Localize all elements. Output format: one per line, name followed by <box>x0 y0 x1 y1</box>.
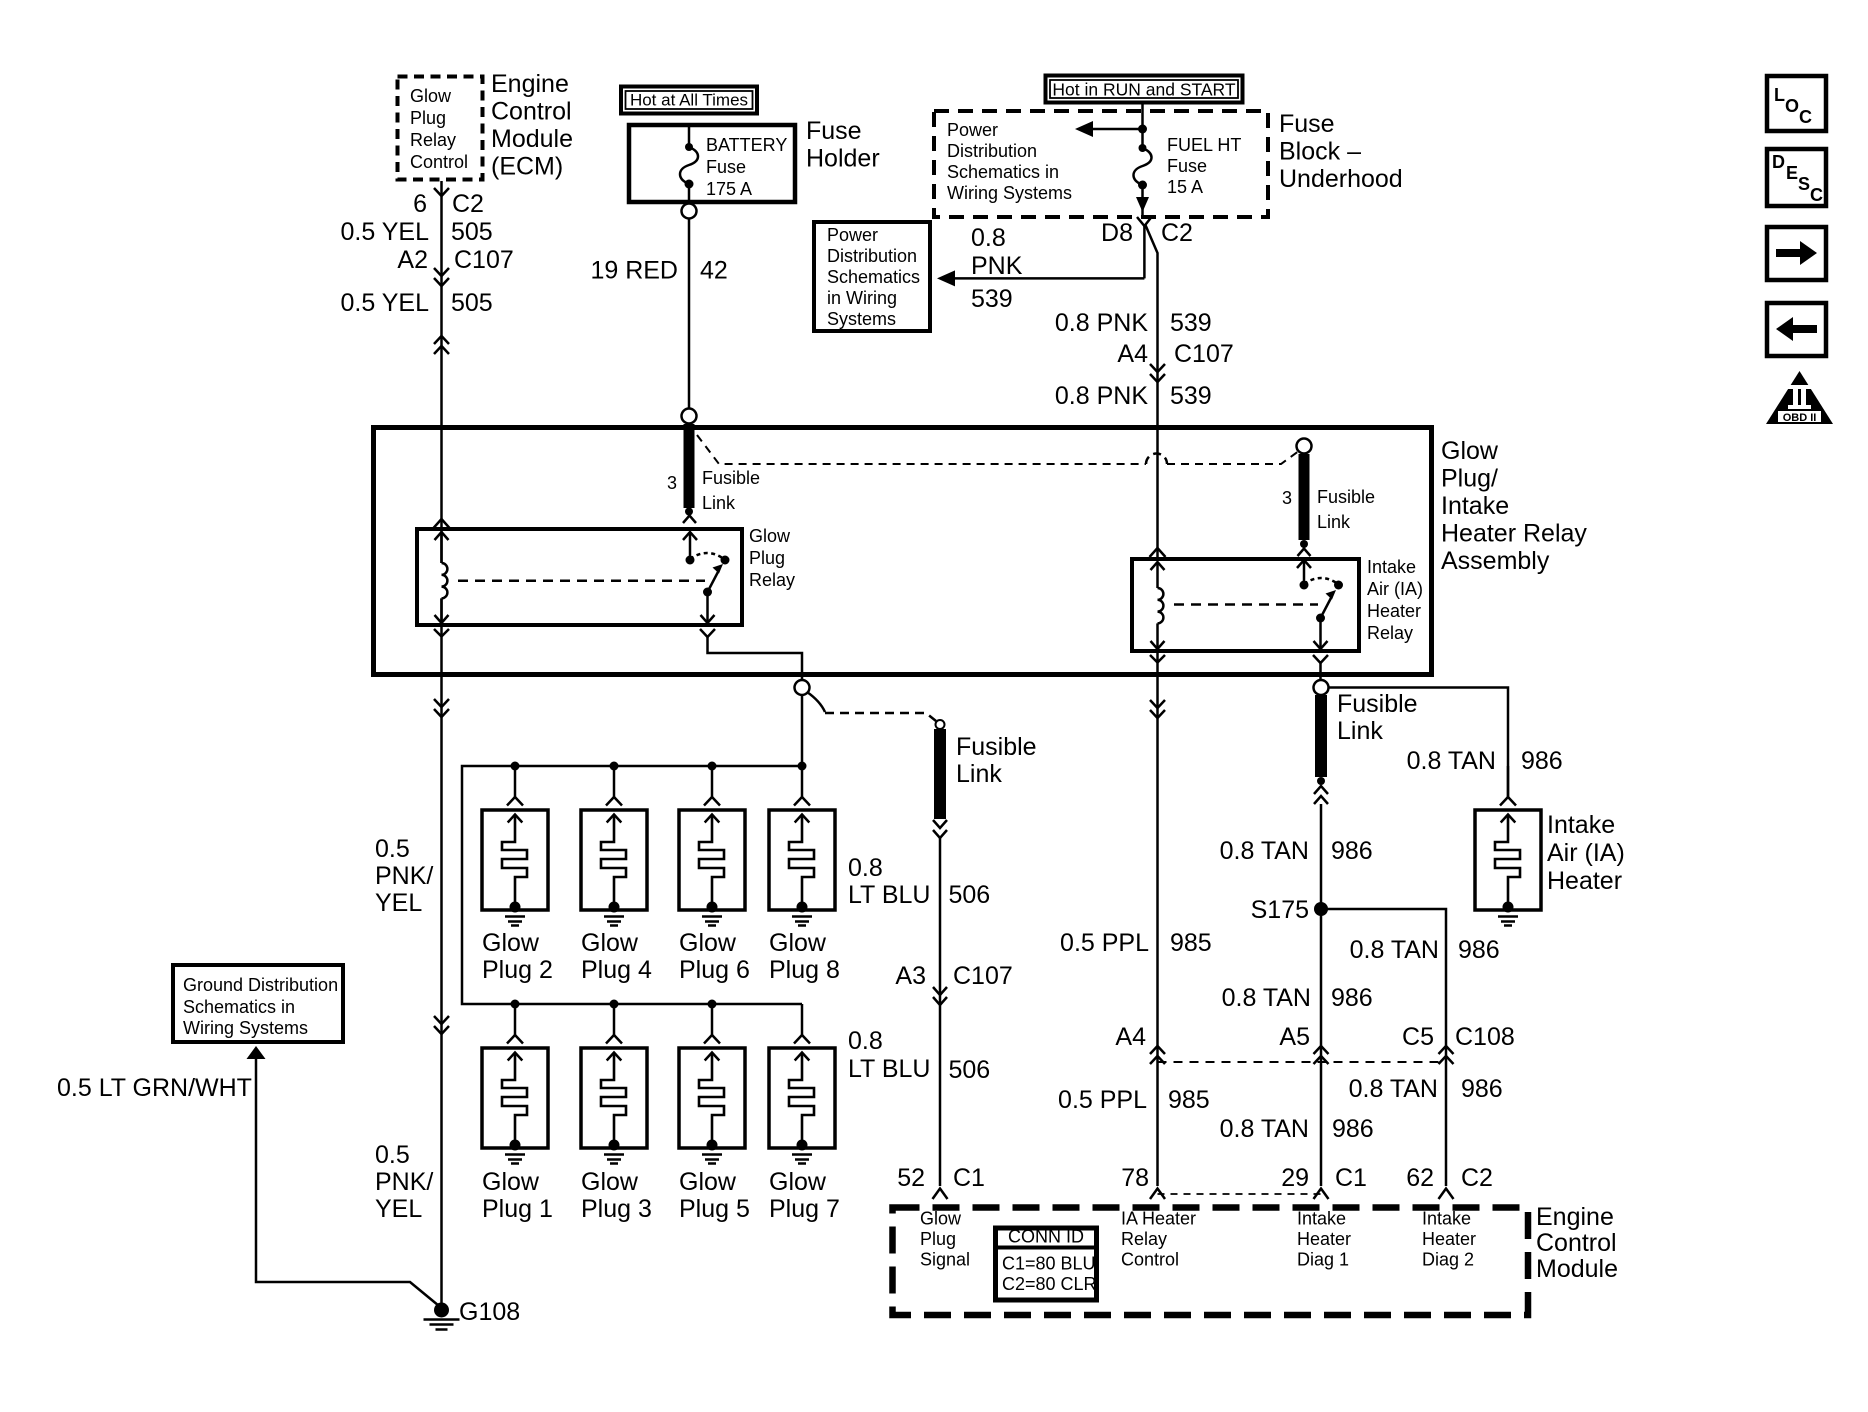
svg-text:Fusible: Fusible <box>1337 690 1418 718</box>
svg-text:Glow: Glow <box>482 929 540 957</box>
svg-text:986: 986 <box>1461 1075 1503 1103</box>
svg-text:Relay: Relay <box>749 570 795 590</box>
label: 0.5 PNK/ YEL (lower) <box>375 1141 433 1223</box>
svg-text:Control: Control <box>1121 1250 1179 1270</box>
svg-text:PNK: PNK <box>971 252 1023 280</box>
svg-text:C107: C107 <box>953 962 1013 990</box>
label: 0.8 TAN 986 (heater drop) <box>1407 747 1563 775</box>
svg-text:986: 986 <box>1331 837 1373 865</box>
label: Glow Plug/ Intake Heater Relay Assembly <box>1441 437 1587 575</box>
IA heater relay switch <box>1297 560 1343 649</box>
label box: Hot at All Times <box>621 87 757 114</box>
svg-text:Heater: Heater <box>1367 601 1421 621</box>
pin chevron 52 <box>933 1189 948 1200</box>
svg-text:986: 986 <box>1331 984 1373 1012</box>
svg-text:Glow: Glow <box>1441 437 1499 465</box>
wire break double chevron up on 505 wire <box>434 336 449 354</box>
label: 0.8 PNK 539 <box>1055 309 1212 337</box>
svg-text:(ECM): (ECM) <box>491 153 563 181</box>
svg-text:0.5 PPL: 0.5 PPL <box>1058 1086 1147 1114</box>
svg-text:C107: C107 <box>1174 340 1234 368</box>
svg-text:CONN ID: CONN ID <box>1008 1227 1084 1247</box>
chevron above IA relay on 539 wire <box>1150 548 1166 557</box>
connector C108 dashed line <box>1158 1061 1447 1063</box>
svg-text:Plug 7: Plug 7 <box>769 1195 840 1223</box>
wire into fuse <box>688 127 691 146</box>
svg-text:Plug 6: Plug 6 <box>679 956 750 984</box>
ground distribution schematics reference box <box>173 965 343 1042</box>
pin chevron 78 <box>1150 1189 1165 1200</box>
connector C108 chevrons C5 <box>1439 1046 1454 1064</box>
label: pin 6 / C2 <box>413 190 484 218</box>
svg-text:Fuse: Fuse <box>706 157 746 177</box>
svg-text:0.8 TAN: 0.8 TAN <box>1349 1075 1438 1103</box>
svg-text:Link: Link <box>1317 512 1351 532</box>
svg-text:986: 986 <box>1458 936 1500 964</box>
connector chevron below IA relay coil <box>1150 655 1165 663</box>
svg-text:Plug: Plug <box>749 548 785 568</box>
wire: 985 PPL from IA relay coil down to ECM pin 78 <box>1156 651 1159 1186</box>
svg-text:Link: Link <box>1337 717 1383 745</box>
dashed actuation line IA relay <box>1174 603 1318 606</box>
svg-text:0.8: 0.8 <box>848 1027 883 1055</box>
svg-text:IA Heater: IA Heater <box>1121 1209 1196 1229</box>
IA heater relay coil <box>1151 562 1165 649</box>
svg-text:Intake: Intake <box>1422 1209 1471 1229</box>
wire: 19 RED 42 <box>688 219 691 408</box>
svg-text:Glow: Glow <box>769 1168 827 1196</box>
svg-text:Air (IA): Air (IA) <box>1547 839 1625 867</box>
svg-text:505: 505 <box>451 289 493 317</box>
svg-text:Air (IA): Air (IA) <box>1367 579 1423 599</box>
fusible link 1 (glow plug relay feed) <box>683 424 696 523</box>
svg-text:A2: A2 <box>397 246 428 274</box>
dashed actuation line glow plug relay <box>458 579 705 582</box>
svg-text:505: 505 <box>451 218 493 246</box>
dashed jumper from fusible link 1 to fusible link 2 <box>697 435 1298 464</box>
connector C107 inline (A3) double chevron <box>933 987 947 1005</box>
power distribution schematics reference box <box>814 222 930 331</box>
svg-text:Hot at All Times: Hot at All Times <box>630 91 748 110</box>
fusible link 2 (IA heater relay feed) <box>1297 439 1312 557</box>
svg-text:Intake: Intake <box>1367 557 1416 577</box>
svg-text:3: 3 <box>667 473 677 493</box>
svg-text:LT BLU: LT BLU <box>848 881 930 909</box>
labels: A4 A5 C5 C108 <box>1115 1023 1514 1051</box>
intake air (IA) heater <box>1475 766 1541 926</box>
label: 0.5 YEL 505 <box>340 218 492 246</box>
connector D8 female chevron below fuse block <box>1137 217 1152 278</box>
svg-text:Diag 2: Diag 2 <box>1422 1250 1474 1270</box>
icon: forward arrow box <box>1767 227 1826 280</box>
svg-text:Glow: Glow <box>410 86 452 106</box>
svg-text:Assembly: Assembly <box>1441 547 1550 575</box>
svg-text:0.8: 0.8 <box>848 854 883 882</box>
wire break double chevron on PNK/YEL wire (lower) <box>434 1016 449 1034</box>
svg-text:S175: S175 <box>1251 896 1309 924</box>
svg-text:C5: C5 <box>1402 1023 1434 1051</box>
svg-text:Systems: Systems <box>827 309 896 329</box>
label: Fusible Link (middle) <box>956 733 1037 788</box>
svg-text:Wiring Systems: Wiring Systems <box>183 1018 308 1038</box>
svg-text:Glow: Glow <box>679 1168 737 1196</box>
label: 0.8 PNK 539 (branch) <box>971 224 1023 313</box>
label: Intake Air (IA) Heater Relay <box>1367 557 1423 643</box>
svg-text:Fuse: Fuse <box>806 117 862 145</box>
svg-text:Schematics: Schematics <box>827 267 920 287</box>
svg-text:C2: C2 <box>452 190 484 218</box>
label: 0.8 TAN 986 (right lower) <box>1349 1075 1503 1103</box>
svg-text:D: D <box>1772 152 1785 172</box>
svg-text:Fusible: Fusible <box>702 468 760 488</box>
svg-text:Distribution: Distribution <box>827 246 917 266</box>
svg-text:Signal: Signal <box>920 1250 970 1270</box>
node circle below fuse holder <box>682 204 697 219</box>
label: 0.8 TAN 986 (below S175) <box>1222 984 1373 1012</box>
wire: 0.8 LT BLU 506 down to ECM <box>939 838 942 1186</box>
svg-text:C2: C2 <box>1461 1164 1493 1192</box>
svg-text:Fuse: Fuse <box>1279 110 1335 138</box>
svg-text:Relay: Relay <box>1121 1229 1167 1249</box>
dashed jumper from bus feed circle to fusible link 3 <box>807 692 936 721</box>
label: Fusible Link (right) <box>1337 690 1418 745</box>
chevron above glow plug relay on 505 wire <box>434 519 450 528</box>
svg-text:Plug: Plug <box>410 108 446 128</box>
svg-text:C1=80 BLU: C1=80 BLU <box>1002 1254 1096 1274</box>
svg-text:0.8 PNK: 0.8 PNK <box>1055 309 1148 337</box>
fuse BATTERY 175 A symbol <box>680 143 698 202</box>
label: 0.5 YEL 505 (second) <box>340 289 492 317</box>
label: Engine Control Module (ECM) <box>491 70 573 181</box>
svg-text:C107: C107 <box>454 246 514 274</box>
svg-text:0.5: 0.5 <box>375 1141 410 1169</box>
svg-text:0.8 TAN: 0.8 TAN <box>1222 984 1311 1012</box>
junction dots bus row 1 <box>511 762 807 771</box>
svg-text:Link: Link <box>956 760 1002 788</box>
label: 0.5 PNK/ YEL (upper) <box>375 835 433 917</box>
svg-text:Engine: Engine <box>491 70 569 98</box>
glow plug 6 <box>679 766 750 984</box>
junction dot and arrow to power distribution <box>1075 121 1147 137</box>
svg-text:C1: C1 <box>1335 1164 1367 1192</box>
label: 0.8 PNK 539 (second) <box>1055 382 1212 410</box>
svg-text:O: O <box>1785 96 1799 116</box>
engine control module (ECM) dashed box, glow plug relay control <box>398 77 483 180</box>
svg-text:0.5 PPL: 0.5 PPL <box>1060 929 1149 957</box>
svg-text:Underhood: Underhood <box>1279 165 1403 193</box>
svg-text:3: 3 <box>1282 488 1292 508</box>
svg-text:Module: Module <box>1536 1255 1618 1283</box>
svg-text:Ground Distribution: Ground Distribution <box>183 975 338 995</box>
wire: 0.8 TAN 986 from S175 to pin 62 <box>1321 909 1446 1186</box>
glow plug relay box <box>417 529 742 625</box>
svg-text:0.5 YEL: 0.5 YEL <box>340 218 429 246</box>
svg-text:62: 62 <box>1406 1164 1434 1192</box>
label: Fuse Block - Underhood <box>1279 110 1403 193</box>
wire from feed circle to glow plug bus <box>801 695 804 766</box>
icon: back arrow box <box>1767 303 1826 356</box>
label: Intake Heater Diag 1 <box>1297 1209 1351 1270</box>
wire: 0.5 LT GRN/WHT to ground box <box>247 1046 442 1308</box>
svg-text:A5: A5 <box>1279 1023 1310 1051</box>
wire: 0.8 TAN 986 from fusible link 4 down <box>1320 804 1323 1186</box>
label: A2 C107 <box>397 246 513 274</box>
svg-text:A3: A3 <box>895 962 926 990</box>
wire: 0.8 PNK 539 main drop (circuit 539) <box>1145 224 1158 559</box>
svg-text:Glow: Glow <box>679 929 737 957</box>
label: 0.8 TAN 986 (right drop) <box>1350 936 1500 964</box>
svg-text:Intake: Intake <box>1441 492 1509 520</box>
label: IA Heater Relay Control <box>1121 1209 1196 1270</box>
svg-text:LT BLU: LT BLU <box>848 1055 930 1083</box>
svg-text:Block –: Block – <box>1279 138 1361 166</box>
svg-text:Fuse: Fuse <box>1167 156 1207 176</box>
svg-text:S: S <box>1798 174 1810 194</box>
svg-text:539: 539 <box>1170 382 1212 410</box>
svg-text:Heater Relay: Heater Relay <box>1441 520 1587 548</box>
fuse FUEL HT 15 A symbol <box>1134 144 1152 217</box>
connector C108 chevrons A5 <box>1314 1046 1329 1064</box>
connector C108 chevrons A4 <box>1150 1046 1165 1064</box>
svg-text:Engine: Engine <box>1536 1203 1614 1231</box>
label: 0.8 TAN 986 (mid lower) <box>1220 1115 1374 1143</box>
svg-text:Heater: Heater <box>1297 1229 1351 1249</box>
svg-text:0.8 PNK: 0.8 PNK <box>1055 382 1148 410</box>
svg-text:Wiring Systems: Wiring Systems <box>947 183 1072 203</box>
svg-text:Glow: Glow <box>920 1209 962 1229</box>
dashed link between pins 78 and 29 <box>1158 1193 1322 1195</box>
svg-text:Glow: Glow <box>749 526 791 546</box>
label: Glow Plug Relay <box>749 526 795 590</box>
svg-text:C: C <box>1799 107 1812 127</box>
label: 3 Fusible Link (left) <box>667 468 760 513</box>
svg-text:0.8 TAN: 0.8 TAN <box>1220 1115 1309 1143</box>
svg-text:Control: Control <box>1536 1229 1617 1257</box>
svg-text:19 RED: 19 RED <box>590 257 678 285</box>
svg-text:Plug 2: Plug 2 <box>482 956 553 984</box>
svg-text:A4: A4 <box>1115 1023 1146 1051</box>
svg-text:PNK/: PNK/ <box>375 862 433 890</box>
wire from Hot in RUN into fuse block <box>1141 102 1144 147</box>
label: 3 Fusible Link (right) <box>1282 487 1375 532</box>
svg-text:986: 986 <box>1332 1115 1374 1143</box>
svg-text:Distribution: Distribution <box>947 141 1037 161</box>
label: 0.5 LT GRN/WHT <box>57 1074 252 1102</box>
svg-text:BATTERY: BATTERY <box>706 135 787 155</box>
svg-text:C108: C108 <box>1455 1023 1515 1051</box>
wire break double chevron on PNK/YEL wire (upper) <box>434 699 449 717</box>
glow plug 8 <box>769 766 840 984</box>
svg-text:0.5 YEL: 0.5 YEL <box>340 289 429 317</box>
svg-text:539: 539 <box>1170 309 1212 337</box>
svg-text:YEL: YEL <box>375 889 422 917</box>
svg-text:L: L <box>1774 85 1785 105</box>
glow plug 3 <box>581 1004 652 1223</box>
svg-text:0.8: 0.8 <box>971 224 1006 252</box>
fusible link 3 (glow plug signal) <box>933 720 947 838</box>
fuse block underhood dashed box <box>934 111 1268 217</box>
fuse holder box <box>629 125 795 202</box>
svg-text:Diag 1: Diag 1 <box>1297 1250 1349 1270</box>
glow plug 5 <box>679 1004 750 1223</box>
svg-text:G108: G108 <box>459 1298 520 1326</box>
svg-text:986: 986 <box>1521 747 1563 775</box>
svg-text:Fusible: Fusible <box>956 733 1037 761</box>
wire: 0.5 YEL 505 from ECM pin 6 C2 down (circuit 505) <box>440 181 443 1305</box>
svg-text:0.8 TAN: 0.8 TAN <box>1350 936 1439 964</box>
svg-text:Schematics in: Schematics in <box>183 997 295 1017</box>
svg-text:OBD II: OBD II <box>1783 412 1817 424</box>
svg-text:FUEL HT: FUEL HT <box>1167 135 1241 155</box>
svg-text:Schematics in: Schematics in <box>947 162 1059 182</box>
svg-text:Link: Link <box>702 493 736 513</box>
glow plug relay switch <box>683 532 730 623</box>
glow plug bus row 1 <box>462 766 802 1004</box>
svg-text:D8: D8 <box>1101 219 1133 247</box>
pin chevron 62 <box>1439 1189 1454 1200</box>
icon: OBD II triangle <box>1766 371 1833 424</box>
connector chevron below ECM box <box>434 188 449 196</box>
label: 0.5 PPL 985 (upper) <box>1060 929 1212 957</box>
icon: LOC box <box>1767 76 1826 131</box>
svg-text:Control: Control <box>410 152 468 172</box>
wire: 0.8 PNK 539 branch arrow to power distribution <box>937 270 1144 286</box>
label: Intake Air (IA) Heater <box>1547 811 1625 895</box>
svg-text:Plug 3: Plug 3 <box>581 1195 652 1223</box>
svg-text:15 A: 15 A <box>1167 177 1203 197</box>
pin labels: 52 C1, 78, 29 C1, 62 C2 <box>897 1164 1493 1192</box>
svg-text:Power: Power <box>947 120 998 140</box>
node circle at fusible link 1 top <box>682 409 697 424</box>
label: Intake Heater Diag 2 <box>1422 1209 1476 1270</box>
svg-text:Plug 8: Plug 8 <box>769 956 840 984</box>
svg-text:Relay: Relay <box>1367 623 1413 643</box>
svg-text:Glow: Glow <box>482 1168 540 1196</box>
svg-text:175 A: 175 A <box>706 179 752 199</box>
label: A4 C107 <box>1117 340 1233 368</box>
label: 0.8 TAN 986 (above S175) <box>1220 837 1373 865</box>
CONN ID table <box>996 1227 1097 1301</box>
intake air (IA) heater relay box <box>1132 559 1359 651</box>
connector C107 inline (A2) double chevron <box>434 268 449 286</box>
svg-text:0.8 TAN: 0.8 TAN <box>1407 747 1496 775</box>
svg-text:506: 506 <box>949 881 991 909</box>
engine control module dashed box <box>893 1208 1529 1316</box>
wire: 0.8 TAN 986 to intake air heater <box>1329 688 1509 799</box>
svg-text:539: 539 <box>971 285 1013 313</box>
glow plug 7 <box>769 1004 840 1223</box>
svg-text:Glow: Glow <box>581 929 639 957</box>
svg-text:E: E <box>1786 163 1798 183</box>
label: D8 C2 <box>1101 219 1193 247</box>
label: 0.5 PPL 985 (lower) <box>1058 1086 1210 1114</box>
label: 0.8 LT BLU 506 (lower) <box>848 1027 990 1084</box>
svg-text:Intake: Intake <box>1547 811 1615 839</box>
svg-text:A4: A4 <box>1117 340 1148 368</box>
label: 0.8 LT BLU 506 (upper) <box>848 854 990 909</box>
svg-text:Holder: Holder <box>806 145 880 173</box>
svg-text:Plug 5: Plug 5 <box>679 1195 750 1223</box>
svg-text:C1: C1 <box>953 1164 985 1192</box>
glow plug 1 <box>482 1004 553 1223</box>
svg-text:42: 42 <box>700 257 728 285</box>
svg-text:YEL: YEL <box>375 1195 422 1223</box>
svg-text:C2: C2 <box>1161 219 1193 247</box>
junction dots bus row 2 <box>511 1000 717 1009</box>
glow plug relay coil <box>435 532 449 623</box>
svg-text:6: 6 <box>413 190 427 218</box>
label: A3 C107 <box>895 962 1012 990</box>
svg-text:Plug/: Plug/ <box>1441 465 1498 493</box>
label: 19 RED 42 <box>590 257 727 285</box>
svg-text:29: 29 <box>1281 1164 1309 1192</box>
svg-text:985: 985 <box>1168 1086 1210 1114</box>
label: FUEL HT Fuse 15 A <box>1167 135 1241 197</box>
connector chevron below glow plug relay coil <box>434 629 449 637</box>
ground G108 <box>424 1298 521 1330</box>
fusible link 4 (IA heater feed) <box>1314 680 1329 804</box>
svg-text:985: 985 <box>1170 929 1212 957</box>
svg-text:Module: Module <box>491 125 573 153</box>
svg-text:78: 78 <box>1121 1164 1149 1192</box>
glow plug 4 <box>581 766 652 984</box>
glow plug 2 <box>482 766 553 984</box>
splice S175 <box>1251 896 1328 924</box>
svg-text:0.8 TAN: 0.8 TAN <box>1220 837 1309 865</box>
label: Power Distribution Schematics in Wiring Systems (in fuse block) <box>947 120 1072 203</box>
svg-text:Plug 4: Plug 4 <box>581 956 652 984</box>
glow plug / intake heater relay assembly box <box>374 428 1432 675</box>
svg-text:Intake: Intake <box>1297 1209 1346 1229</box>
icon: DESC box <box>1767 149 1826 206</box>
svg-text:Plug 1: Plug 1 <box>482 1195 553 1223</box>
label: Glow Plug Signal <box>920 1209 970 1270</box>
svg-text:Heater: Heater <box>1547 867 1622 895</box>
svg-text:Heater: Heater <box>1422 1229 1476 1249</box>
svg-text:in Wiring: in Wiring <box>827 288 897 308</box>
connector chevron below glow plug relay <box>700 629 802 680</box>
connector C107 inline (A4) double chevron <box>1150 364 1165 382</box>
svg-text:C: C <box>1810 185 1823 205</box>
svg-text:Glow: Glow <box>769 929 827 957</box>
pin chevron 29 <box>1314 1189 1329 1200</box>
wire break double chevron on 985 wire <box>1150 700 1165 718</box>
label box: Hot in RUN and START <box>1046 76 1243 103</box>
svg-text:506: 506 <box>949 1056 991 1084</box>
svg-text:Control: Control <box>491 98 572 126</box>
svg-text:Glow: Glow <box>581 1168 639 1196</box>
svg-text:Power: Power <box>827 225 878 245</box>
svg-text:Relay: Relay <box>410 130 456 150</box>
svg-text:0.5 LT GRN/WHT: 0.5 LT GRN/WHT <box>57 1074 252 1102</box>
svg-text:PNK/: PNK/ <box>375 1168 433 1196</box>
connector chevron below IA relay <box>1313 655 1328 680</box>
label: Fuse Holder <box>806 117 880 173</box>
svg-text:52: 52 <box>897 1164 925 1192</box>
svg-text:C2=80 CLR: C2=80 CLR <box>1002 1274 1097 1294</box>
label: BATTERY Fuse 175 A <box>706 135 787 199</box>
svg-text:Hot in RUN and START: Hot in RUN and START <box>1052 80 1235 100</box>
label: Engine Control Module (bottom) <box>1536 1203 1618 1283</box>
svg-text:0.5: 0.5 <box>375 835 410 863</box>
svg-text:Plug: Plug <box>920 1229 956 1249</box>
node circle below assembly (glow plug bus feed) <box>795 680 810 695</box>
svg-text:Fusible: Fusible <box>1317 487 1375 507</box>
